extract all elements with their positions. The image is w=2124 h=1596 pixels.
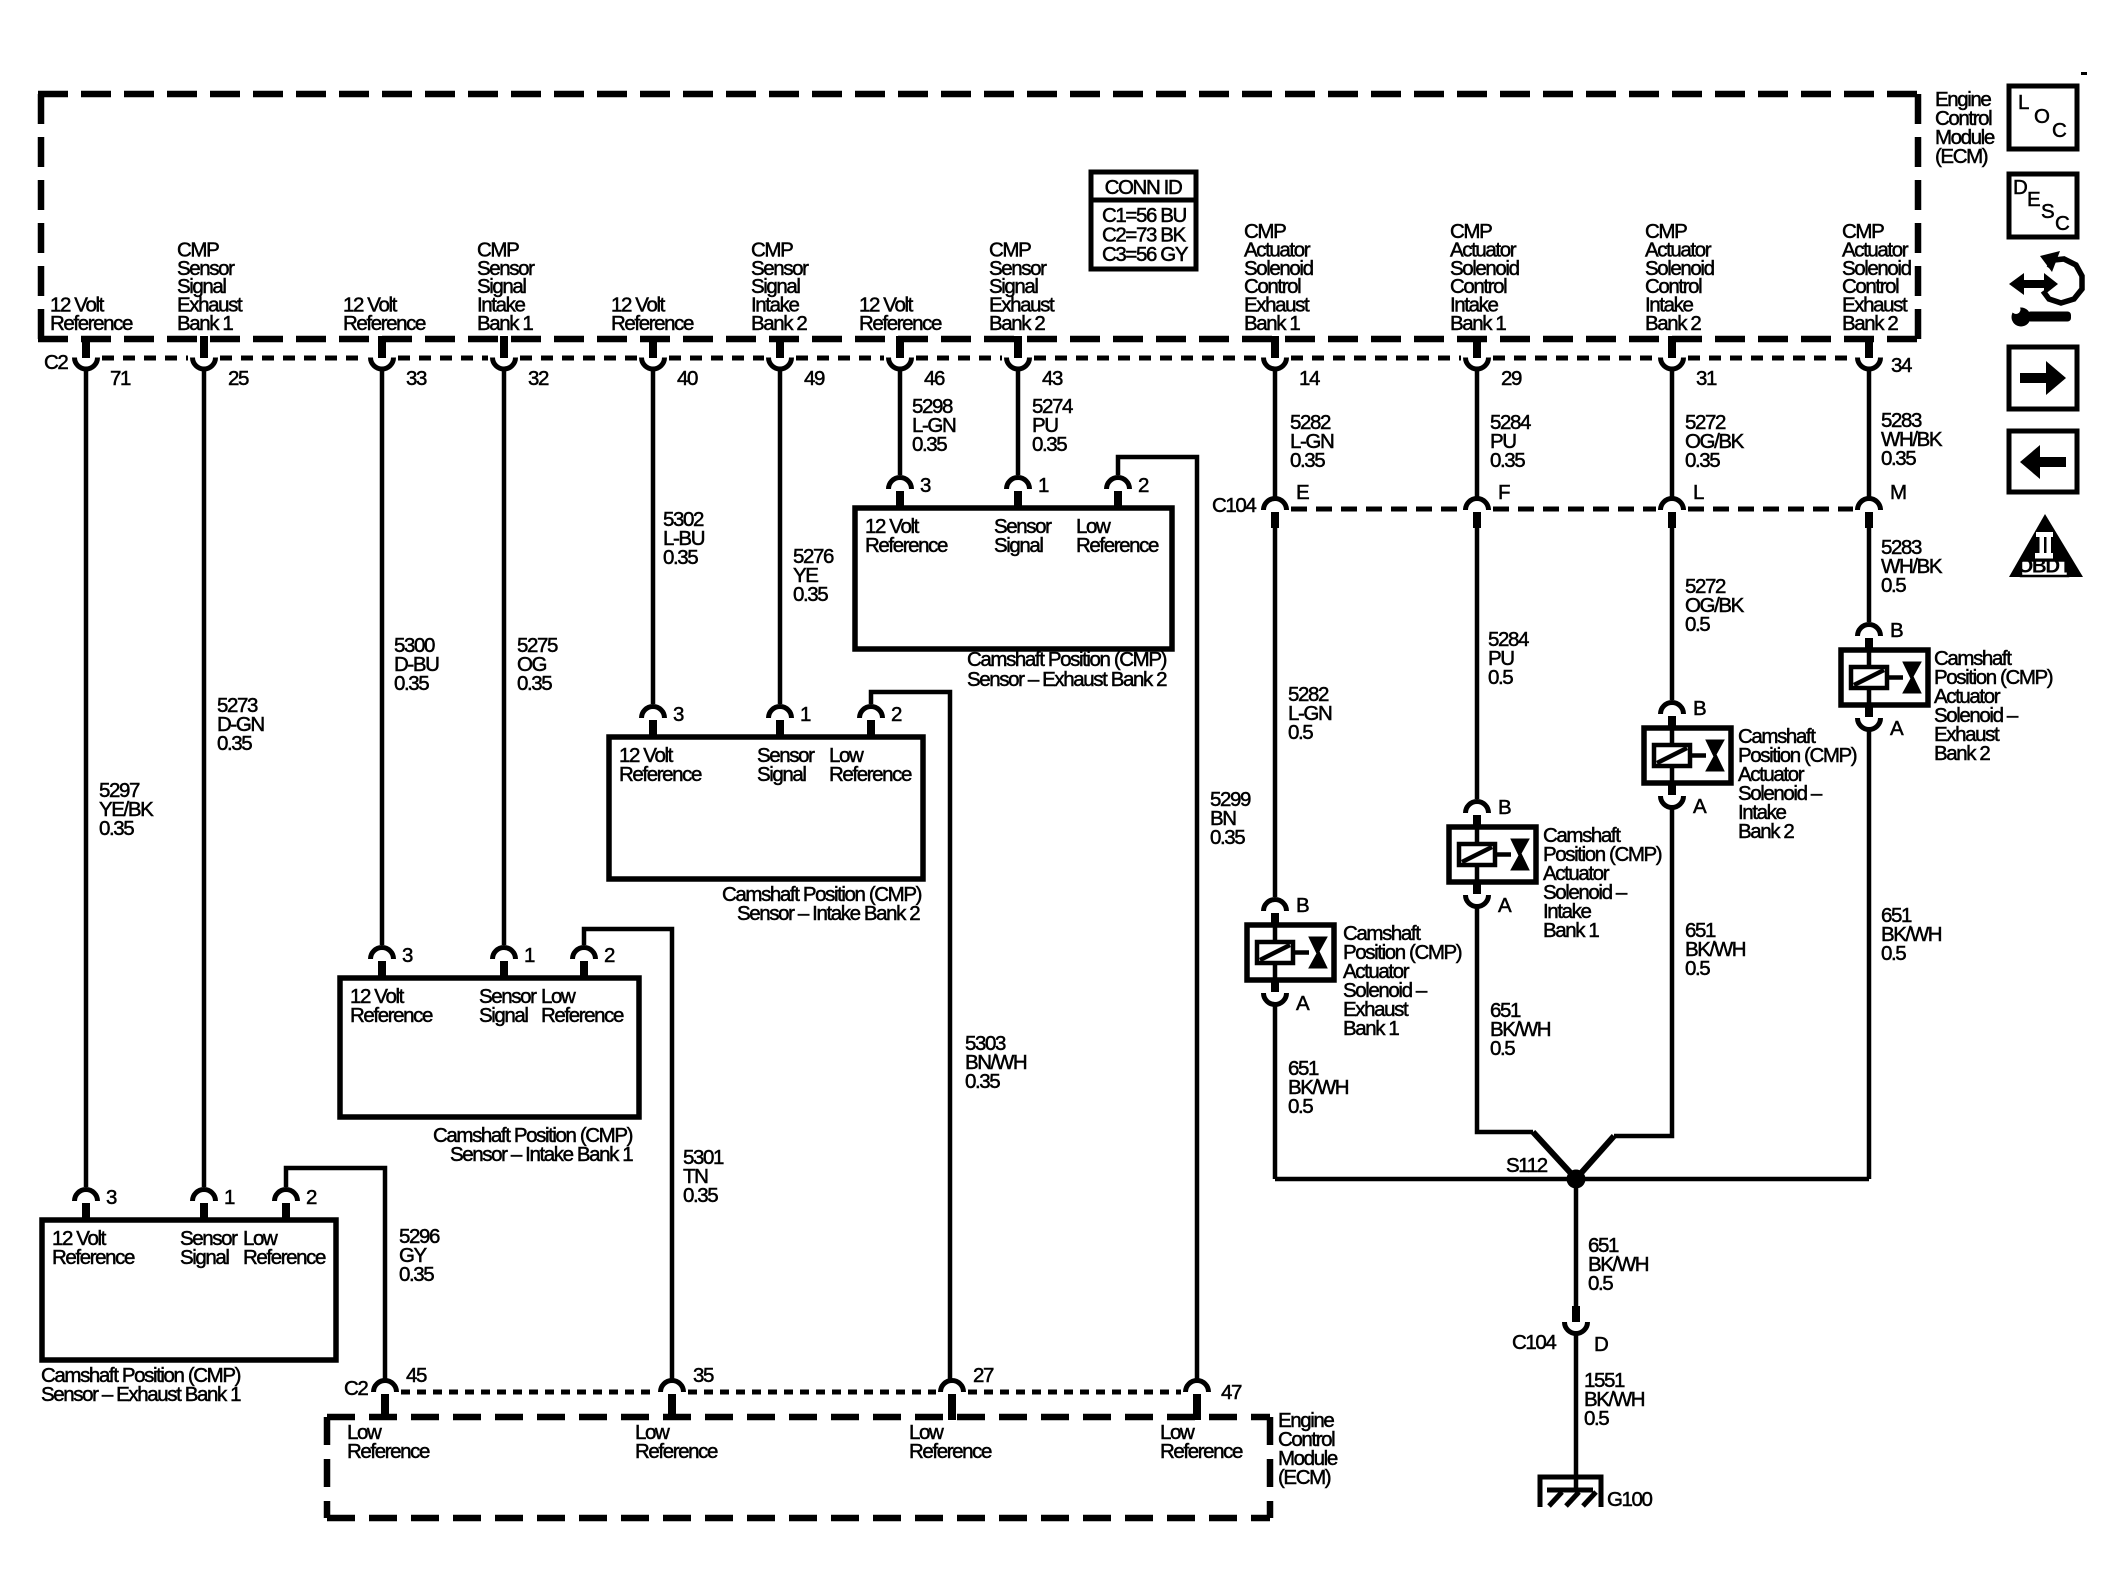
svg-text:0.35: 0.35 (1290, 449, 1325, 472)
svg-text:CONN ID: CONN ID (1105, 176, 1182, 199)
svg-text:0.5: 0.5 (1588, 1272, 1613, 1295)
CMP actuator solenoid intake bank 1: pin B connector (1466, 802, 1489, 813)
svg-text:0.35: 0.35 (1881, 447, 1916, 470)
CMP actuator solenoid intake bank 1: pin A connector (1473, 880, 1481, 894)
svg-text:E: E (2027, 188, 2040, 211)
svg-text:Reference: Reference (541, 1004, 624, 1027)
svg-text:2: 2 (306, 1186, 317, 1209)
wire 5275 OG wire: pin 32 to CMP sensor intake bank1 pin 1 (502, 370, 507, 945)
wire 5283 WH/BK 0.35: ECM pin 34 to C104 M (1867, 370, 1872, 497)
svg-text:Bank 1: Bank 1 (1244, 312, 1300, 335)
svg-text:S: S (2041, 200, 2054, 223)
svg-text:0.5: 0.5 (1490, 1037, 1515, 1060)
svg-text:Reference: Reference (909, 1440, 992, 1463)
C104 pin M connector (1858, 499, 1881, 510)
icon wrench with arrows (2009, 251, 2082, 327)
svg-text:S112: S112 (1506, 1154, 1548, 1177)
svg-text:Bank 1: Bank 1 (477, 312, 533, 335)
ECM pin 27 connector (bottom) (941, 1381, 964, 1393)
svg-text:Signal: Signal (180, 1246, 229, 1269)
ECM pin 25 connector (200, 336, 208, 358)
ECM pin 14 connector (1271, 336, 1279, 358)
ground G100 symbol (1540, 1477, 1601, 1507)
ECM pin 49 connector (776, 336, 784, 358)
svg-text:0.35: 0.35 (793, 583, 828, 606)
wire 651 BK/WH 0.5 from solenoid intake bank1 pin A to S112 (1477, 907, 1533, 1132)
wire 5302 L-BU wire: pin 40 to CMP sensor intake bank2 pin 3 (651, 370, 656, 704)
svg-text:Bank 1: Bank 1 (1543, 919, 1599, 942)
ECM bottom dashed box border (327, 1417, 1270, 1518)
icon OBD II triangle (2009, 514, 2083, 577)
svg-text:3: 3 (402, 944, 413, 967)
svg-text:D: D (1594, 1333, 1608, 1356)
wire 5272 OG/BK 0.5: C104 L to solenoid intake bank2 pin B (1670, 526, 1675, 700)
wire 5296 GY wire: CMP sensor exhaust bank1 pin2 to ECM pin 45 (286, 1168, 385, 1379)
icon arrow right box (2009, 347, 2077, 409)
wire 5298 L-GN wire: pin 46 to CMP sensor exhaust bank2 pin 3 (898, 370, 903, 475)
svg-text:Bank 1: Bank 1 (1450, 312, 1506, 335)
icon arrow left box (2009, 431, 2077, 492)
svg-text:3: 3 (106, 1186, 117, 1209)
svg-text:3: 3 (920, 474, 931, 497)
wire 5282 L-GN 0.35: ECM pin 14 to C104 E (1273, 370, 1278, 497)
svg-text:OBD II: OBD II (2017, 555, 2072, 578)
svg-text:3: 3 (673, 703, 684, 726)
svg-text:Reference: Reference (347, 1440, 430, 1463)
svg-text:(ECM): (ECM) (1935, 145, 1988, 168)
svg-text:43: 43 (1042, 367, 1063, 390)
CMP actuator solenoid intake bank 2: body (1644, 728, 1731, 783)
svg-text:2: 2 (1138, 474, 1149, 497)
CMP sensor box: intake bank 2 (609, 737, 923, 879)
svg-text:0.35: 0.35 (517, 672, 552, 695)
wire 5284 PU 0.35: ECM pin 29 to C104 F (1475, 370, 1480, 497)
svg-text:33: 33 (406, 367, 427, 390)
svg-text:B: B (1890, 619, 1903, 642)
svg-text:0.35: 0.35 (663, 546, 698, 569)
icon DESC box (2009, 174, 2077, 237)
svg-text:0.5: 0.5 (1881, 942, 1906, 965)
svg-text:Reference: Reference (611, 312, 694, 335)
svg-text:Reference: Reference (343, 312, 426, 335)
exhaust bank 1 pin 1 connector (193, 1190, 216, 1202)
svg-text:1: 1 (524, 944, 535, 967)
wire 5282 L-GN 0.5: C104 E to solenoid exhaust bank1 pin B (1273, 526, 1278, 897)
svg-text:G100: G100 (1607, 1488, 1653, 1511)
svg-text:40: 40 (677, 367, 698, 390)
svg-text:C: C (2055, 212, 2070, 235)
svg-text:1: 1 (800, 703, 811, 726)
svg-text:25: 25 (228, 367, 249, 390)
ECM pin 31 connector (1668, 336, 1676, 358)
svg-text:0.35: 0.35 (394, 672, 429, 695)
svg-text:2: 2 (604, 944, 615, 967)
exhaust bank 2 pin 3 connector (889, 478, 912, 490)
CONN ID table (1091, 172, 1196, 269)
svg-text:1: 1 (224, 1186, 235, 1209)
svg-text:1: 1 (1038, 474, 1049, 497)
intake bank 1 pin 2 connector (573, 948, 596, 960)
CMP actuator solenoid intake bank 2: pin B connector (1661, 703, 1684, 715)
svg-text:Reference: Reference (1076, 534, 1159, 557)
svg-text:29: 29 (1501, 367, 1522, 390)
icon LOC box (2009, 86, 2077, 149)
CMP sensor box: exhaust bank 1 (42, 1220, 336, 1360)
wire 651 BK/WH 0.5 from solenoid exhaust bank2 pin A to S112 (1867, 730, 1872, 1179)
svg-text:49: 49 (804, 367, 825, 390)
intake bank 1 pin 3 connector (371, 948, 394, 960)
svg-text:0.5: 0.5 (1685, 613, 1710, 636)
svg-text:0.35: 0.35 (217, 732, 252, 755)
svg-text:L: L (1693, 481, 1704, 504)
svg-text:Reference: Reference (243, 1246, 326, 1269)
wire 1551 BK/WH 0.5: C104 D to G100 (1574, 1334, 1579, 1491)
svg-text:Bank 1: Bank 1 (1343, 1017, 1399, 1040)
svg-text:Signal: Signal (479, 1004, 528, 1027)
svg-text:Bank 1: Bank 1 (177, 312, 233, 335)
svg-text:A: A (1693, 795, 1707, 818)
svg-text:46: 46 (924, 367, 945, 390)
svg-text:C104: C104 (1512, 1331, 1556, 1354)
svg-text:0.35: 0.35 (683, 1184, 718, 1207)
svg-text:0.35: 0.35 (1032, 433, 1067, 456)
svg-text:Signal: Signal (994, 534, 1043, 557)
ECM pin 45 connector (bottom) (374, 1381, 397, 1393)
svg-text:Reference: Reference (50, 312, 133, 335)
ECM pin 33 connector (378, 336, 386, 358)
wire 5299 BN wire: CMP sensor exhaust bank2 pin2 to ECM pin 47 (1118, 457, 1197, 1379)
C104 pin D connector (1572, 1306, 1580, 1322)
svg-text:Reference: Reference (829, 763, 912, 786)
CMP actuator solenoid exhaust bank 1: pin B connector (1264, 900, 1287, 912)
svg-text:45: 45 (406, 1364, 427, 1387)
svg-text:0.35: 0.35 (965, 1070, 1000, 1093)
wire 5300 D-BU wire: pin 33 to CMP sensor intake bank1 pin 3 (380, 370, 385, 945)
CMP actuator solenoid exhaust bank 2: pin B connector (1858, 625, 1881, 637)
svg-text:A: A (1296, 992, 1310, 1015)
wire 5273 D-GN wire: pin 25 to CMP sensor exhaust bank1 pin 1 (202, 370, 207, 1187)
wire 5303 BN/WH wire: CMP sensor intake bank2 pin2 to ECM pin 27 (871, 692, 950, 1379)
svg-text:C2: C2 (44, 351, 68, 374)
svg-text:C104: C104 (1212, 494, 1256, 517)
svg-text:Bank 2: Bank 2 (1738, 820, 1794, 843)
wire 5301 TN wire: CMP sensor intake bank1 pin2 to ECM pin 35 (584, 929, 672, 1379)
svg-text:32: 32 (528, 367, 549, 390)
svg-text:(ECM): (ECM) (1278, 1466, 1331, 1489)
svg-text:C3=56 GY: C3=56 GY (1102, 243, 1189, 266)
svg-text:31: 31 (1696, 367, 1717, 390)
intake bank 2 pin 1 connector (769, 707, 792, 719)
svg-text:Sensor – Intake Bank 2: Sensor – Intake Bank 2 (737, 902, 920, 925)
C104 pin E connector (1264, 499, 1287, 510)
svg-text:C2: C2 (344, 1377, 368, 1400)
svg-text:Sensor – Exhaust Bank 1: Sensor – Exhaust Bank 1 (41, 1383, 241, 1406)
exhaust bank 1 pin 3 connector (75, 1190, 98, 1202)
wire 5283 WH/BK 0.5: C104 M to solenoid exhaust bank2 pin B (1867, 526, 1872, 622)
svg-text:0.5: 0.5 (1584, 1407, 1609, 1430)
svg-text:34: 34 (1891, 354, 1912, 377)
svg-text:47: 47 (1221, 1381, 1242, 1404)
wire 651 BK/WH 0.5 from solenoid intake bank2 pin A to S112 (1614, 808, 1672, 1136)
svg-text:0.5: 0.5 (1881, 574, 1906, 597)
svg-text:Reference: Reference (52, 1246, 135, 1269)
svg-text:Reference: Reference (635, 1440, 718, 1463)
svg-text:0.35: 0.35 (99, 817, 134, 840)
CMP actuator solenoid intake bank 2: pin A connector (1668, 781, 1676, 795)
svg-text:0.35: 0.35 (1490, 449, 1525, 472)
dotted connector line C2 (top) (102, 356, 1853, 361)
svg-text:0.35: 0.35 (1210, 826, 1245, 849)
svg-text:Signal: Signal (757, 763, 806, 786)
svg-text:35: 35 (693, 1364, 714, 1387)
svg-text:Bank 2: Bank 2 (1645, 312, 1701, 335)
svg-text:0.35: 0.35 (912, 433, 947, 456)
svg-text:Reference: Reference (859, 312, 942, 335)
CMP actuator solenoid exhaust bank 1: body (1247, 925, 1334, 980)
ECM pin 40 connector (649, 336, 657, 358)
ECM pin 46 connector (896, 336, 904, 358)
C104 dashed connector line (1291, 507, 1853, 512)
svg-text:Sensor – Exhaust Bank 2: Sensor – Exhaust Bank 2 (967, 668, 1167, 691)
ECM pin 35 connector (bottom) (661, 1381, 684, 1393)
svg-text:A: A (1498, 894, 1512, 917)
CMP sensor box: intake bank 1 (340, 978, 639, 1117)
ECM pin 47 connector (bottom) (1186, 1381, 1209, 1393)
svg-text:Reference: Reference (350, 1004, 433, 1027)
svg-text:Reference: Reference (1160, 1440, 1243, 1463)
ECM pin 71 connector (82, 336, 90, 358)
svg-text:2: 2 (891, 703, 902, 726)
ECM pin 34 connector (1865, 336, 1873, 358)
svg-text:Bank 2: Bank 2 (1842, 312, 1898, 335)
exhaust bank 2 pin 2 connector (1107, 478, 1130, 490)
svg-text:E: E (1296, 481, 1309, 504)
ECM pin 29 connector (1473, 336, 1481, 358)
svg-text:0.35: 0.35 (1685, 449, 1720, 472)
svg-text:D: D (2013, 176, 2027, 199)
svg-text:27: 27 (973, 1364, 994, 1387)
svg-text:B: B (1693, 697, 1706, 720)
wire 5276 YE wire: pin 49 to CMP sensor intake bank2 pin 1 (778, 370, 783, 704)
wire 5284 PU 0.5: C104 F to solenoid intake bank1 pin B (1475, 526, 1480, 799)
svg-text:14: 14 (1299, 367, 1320, 390)
ECM pin 43 connector (1014, 336, 1022, 358)
intake bank 1 pin 1 connector (493, 948, 516, 960)
svg-text:Reference: Reference (619, 763, 702, 786)
svg-text:0.5: 0.5 (1288, 721, 1313, 744)
svg-text:0.5: 0.5 (1288, 1095, 1313, 1118)
svg-text:71: 71 (110, 367, 131, 390)
svg-text:Bank 2: Bank 2 (989, 312, 1045, 335)
svg-text:Reference: Reference (865, 534, 948, 557)
svg-text:Sensor – Intake Bank 1: Sensor – Intake Bank 1 (450, 1143, 633, 1166)
svg-text:C: C (2052, 119, 2067, 142)
svg-text:O: O (2034, 105, 2049, 128)
CMP actuator solenoid exhaust bank 2: body (1841, 650, 1928, 705)
intake bank 2 pin 2 connector (860, 707, 883, 719)
svg-text:0.5: 0.5 (1685, 957, 1710, 980)
svg-text:L: L (2018, 91, 2029, 114)
wire 5272 OG/BK 0.35: ECM pin 31 to C104 L (1670, 370, 1675, 497)
splice S112 junction dot (1567, 1170, 1586, 1189)
CMP actuator solenoid exhaust bank 1: pin A connector (1271, 978, 1279, 992)
svg-text:Bank 2: Bank 2 (751, 312, 807, 335)
svg-text:B: B (1498, 796, 1511, 819)
ECM pin 32 connector (500, 336, 508, 358)
exhaust bank 2 pin 1 connector (1007, 478, 1030, 490)
wire 651 BK/WH 0.5 from solenoid exhaust bank1 pin A to S112 (1273, 1005, 1278, 1179)
ECM top dashed box border (38, 94, 1921, 339)
svg-text:B: B (1296, 894, 1309, 917)
CMP actuator solenoid intake bank 1: body (1449, 827, 1536, 882)
wire 651 BK/WH 0.5 from S112 to C104 D (1574, 1184, 1579, 1306)
page mark dot (2081, 72, 2087, 75)
svg-text:Bank 2: Bank 2 (1934, 742, 1990, 765)
wire 5274 PU wire: pin 43 to CMP sensor exhaust bank2 pin 1 (1016, 370, 1021, 475)
exhaust bank 1 pin 2 connector (275, 1190, 298, 1202)
wire splice bus S112 (1275, 1177, 1869, 1182)
intake bank 2 pin 3 connector (642, 707, 665, 719)
C104 pin L connector (1661, 499, 1684, 510)
svg-text:A: A (1890, 717, 1904, 740)
svg-text:0.5: 0.5 (1488, 666, 1513, 689)
CMP sensor box: exhaust bank 2 (855, 508, 1172, 649)
C104 pin F connector (1466, 499, 1489, 510)
svg-text:0.35: 0.35 (399, 1263, 434, 1286)
svg-text:F: F (1498, 481, 1510, 504)
dotted connector line C2 (bottom) (401, 1390, 1181, 1395)
wire 5297 YE/BK wire: pin 71 to CMP sensor exhaust bank1 pin 3 (84, 370, 89, 1187)
svg-text:M: M (1890, 481, 1906, 504)
CMP actuator solenoid exhaust bank 2: pin A connector (1865, 703, 1873, 717)
